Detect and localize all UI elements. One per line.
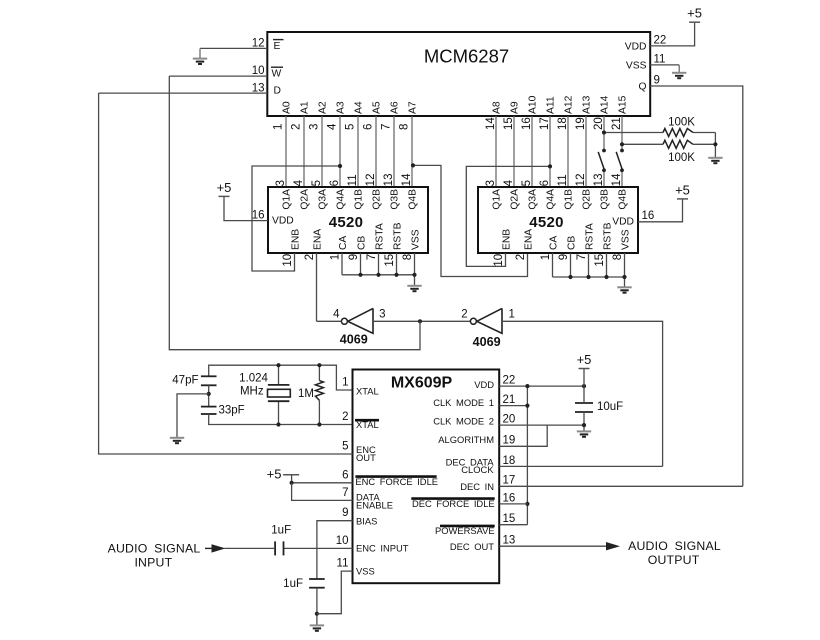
svg-text:Q1A: Q1A [282,189,293,210]
wire A14 bus upper [603,116,605,151]
wire VSS route [317,571,353,614]
svg-text:10: 10 [336,535,349,547]
svg-text:DEC OUT: DEC OUT [450,541,494,552]
svg-text:Q3B: Q3B [390,189,401,210]
svg-text:9: 9 [654,75,660,87]
U3 RSTB wire [606,253,608,277]
IC U1 MCM6287 body [267,32,650,116]
node R2 ground junction [713,142,717,146]
node C1/C2 junction [207,392,211,396]
wire pin13 DEC OUT [499,545,607,547]
svg-text:MHz: MHz [240,385,264,397]
svg-text:11: 11 [654,54,666,66]
svg-text:4: 4 [333,309,340,321]
svg-text:15: 15 [384,254,396,267]
svg-text:10: 10 [252,65,265,77]
IC U2 4520 body [268,187,428,253]
svg-text:CLK MODE 2: CLK MODE 2 [433,416,494,427]
svg-text:CB: CB [566,236,577,250]
svg-text:VDD: VDD [625,42,647,53]
svg-text:CB: CB [356,236,367,250]
svg-text:7: 7 [576,254,588,260]
U2 CB wire [360,253,362,275]
svg-text:Q3A: Q3A [528,189,539,210]
svg-text:VDD: VDD [272,215,294,226]
svg-text:16: 16 [642,210,655,222]
svg-text:3: 3 [275,180,287,186]
wire BIAS [317,521,353,579]
svg-text:Q1B: Q1B [354,189,365,210]
svg-text:VSS: VSS [620,229,631,250]
U5 pin 16 overline [411,497,494,500]
svg-text:100K: 100K [668,117,695,129]
svg-text:MX609P: MX609P [391,374,453,391]
svg-text:CLK MODE 1: CLK MODE 1 [433,397,494,408]
svg-text:Q4B: Q4B [408,189,419,210]
svg-text:11: 11 [347,174,359,186]
svg-text:A12: A12 [564,95,575,114]
svg-text:10uF: 10uF [597,401,623,413]
wire A1 bus [303,116,305,187]
wire pin18 DEC DATA CLOCK [499,465,662,467]
svg-text:Q2B: Q2B [582,189,593,210]
svg-text:5: 5 [344,124,356,130]
wire xtal bottom rail [209,414,353,425]
wire A6 bus [393,116,395,187]
wire A2 bus [321,116,323,187]
svg-text:Q3A: Q3A [318,189,329,210]
U1 pin 12 E wire [200,47,267,49]
svg-text:16: 16 [252,210,265,222]
+5 supply at U2 VDD [217,180,232,197]
crystal Y1 wires [278,365,280,385]
svg-text:13: 13 [503,535,516,547]
wire A8 bus [495,116,497,187]
svg-text:+5: +5 [577,352,592,367]
svg-text:10: 10 [282,254,294,267]
svg-text:21: 21 [611,117,623,130]
U3 ground rail [553,276,625,278]
output arrowhead [606,542,620,550]
ground at cap junction [170,438,184,443]
svg-text:11: 11 [557,174,569,186]
U1 pin 22 VDD wire [650,22,694,46]
node bus pin21 [525,404,529,408]
svg-text:17: 17 [503,475,516,487]
svg-text:11: 11 [337,558,349,570]
svg-text:1uF: 1uF [283,578,303,590]
svg-text:VSS: VSS [356,565,375,576]
svg-text:17: 17 [539,117,551,130]
svg-text:7: 7 [366,254,378,260]
svg-text:A13: A13 [582,95,593,114]
svg-text:A14: A14 [600,95,611,114]
U2 CA wire [341,253,343,275]
wire pin20 [499,424,584,426]
wire R2 to ground bus [693,143,715,145]
U3 rail junction RSTA [586,275,590,279]
wire A4 bus [357,116,359,187]
IC U5 MX609P body [353,370,500,584]
wire U4A output to U2 ENA [317,320,342,322]
ground at U1 VSS [672,65,686,78]
wire ENC INPUT right [284,547,353,549]
wire node to W line [169,76,420,350]
svg-text:VSS: VSS [410,229,421,250]
wire A13 bus [585,116,587,187]
switch S1 contacts [602,149,606,153]
U2 RSTA wire [378,253,380,275]
wire pin16 [499,503,527,505]
U1 pin 10 W wire [169,75,267,77]
U3 rail junction RSTB [604,275,608,279]
svg-text:ENB: ENB [501,229,512,250]
svg-text:7: 7 [342,487,348,499]
svg-text:ENC FORCE IDLE: ENC FORCE IDLE [355,476,438,487]
svg-text:13: 13 [593,174,605,187]
resistor R1 100K [663,129,693,137]
svg-text:1: 1 [330,254,342,260]
svg-text:VDD: VDD [474,379,494,390]
wire pin15 [499,524,527,526]
svg-text:ENC INPUT: ENC INPUT [356,543,409,554]
node Y1 bottom [276,422,280,426]
svg-text:RSTA: RSTA [374,223,385,250]
wire A0 bus [285,116,287,187]
crystal Y1 1.024MHz [268,384,290,386]
svg-text:47pF: 47pF [172,374,198,386]
wire pin6 to pin7 [292,483,353,501]
svg-text:AUDIO SIGNAL: AUDIO SIGNAL [108,542,201,556]
svg-text:18: 18 [557,117,569,130]
svg-text:ENB: ENB [290,229,301,250]
wire R1 to ground bus [693,132,715,134]
svg-text:2: 2 [515,254,527,260]
capacitor C4 1uF bias [309,578,325,580]
svg-text:ENABLE: ENABLE [356,499,393,510]
wire A9 bus [513,116,515,187]
U1 pin 11 VSS wire [650,64,679,66]
switch S2 contacts [620,149,624,153]
resistor R2 100K [663,140,693,148]
wire xtal top rail [209,365,353,390]
svg-text:Q4A: Q4A [546,189,557,210]
wire +5 to pin 6 [291,475,293,483]
svg-text:ENA: ENA [523,229,534,250]
U3 ENB wire [466,166,550,266]
svg-text:POWERSAVE: POWERSAVE [435,525,495,536]
svg-text:A5: A5 [372,101,383,114]
input arrowhead [212,544,226,552]
svg-text:RSTB: RSTB [392,222,403,250]
U2 ENA wire [316,253,318,321]
inverter U4A 4069 body [348,308,373,333]
svg-text:19: 19 [575,117,587,130]
svg-text:INPUT: INPUT [134,556,172,570]
node pin6 +5 junction [290,481,294,485]
svg-text:Q2A: Q2A [300,189,311,210]
svg-text:12: 12 [252,38,265,50]
svg-text:3: 3 [485,180,497,186]
svg-text:+5: +5 [675,182,690,197]
svg-text:4069: 4069 [473,335,501,349]
svg-text:14: 14 [611,173,623,186]
svg-text:A3: A3 [336,101,347,114]
U1 pin 13 D wire [99,92,268,94]
wire A14 bus lower [603,170,605,187]
U2 rail junction VSS [412,273,416,277]
svg-text:1: 1 [272,124,284,130]
wire A15 bus upper [621,116,623,151]
U1 pin E overline [273,39,284,41]
U5 pin 15 overline [440,525,495,528]
svg-text:6: 6 [329,180,341,186]
switch S1 blade [598,152,604,170]
wire resistor ground stem [714,133,716,158]
svg-text:3: 3 [308,124,320,130]
svg-text:4069: 4069 [340,333,368,347]
svg-text:9: 9 [558,254,570,260]
svg-text:Q2A: Q2A [510,189,521,210]
node A11/Q4A to U3 ENB junction [548,164,552,168]
svg-text:D: D [274,86,281,97]
svg-text:8: 8 [402,254,414,260]
svg-text:8: 8 [612,254,624,260]
svg-text:CLOCK: CLOCK [461,464,494,475]
svg-text:Q4A: Q4A [336,189,347,210]
svg-text:A2: A2 [318,101,329,114]
wire A10 bus [531,116,533,187]
svg-text:12: 12 [575,174,587,187]
+5 supply at U5 VDD [577,352,592,386]
svg-text:19: 19 [503,435,516,447]
svg-text:A7: A7 [408,101,419,114]
wire A3 bus [339,116,341,187]
wire A14 to R1 [604,132,663,134]
ground at U1 pin 12 [193,48,207,64]
node between inverters [418,319,422,323]
svg-text:6: 6 [342,469,348,481]
U2 ENB wire [252,166,340,271]
svg-text:10: 10 [493,254,505,267]
svg-text:12: 12 [365,174,377,187]
wire input arrow line [225,547,276,549]
wire VDD pin22 [499,385,584,387]
node VDD/+5 junction [582,384,586,388]
svg-text:W: W [272,69,282,80]
U2 rail junction RSTB [394,273,398,277]
svg-text:Q4B: Q4B [618,189,629,210]
ground at U2 VSS [407,286,421,291]
svg-text:13: 13 [252,82,265,94]
svg-text:14: 14 [485,117,497,130]
svg-text:1M: 1M [298,388,314,400]
ground at pull-down resistors [708,158,722,163]
svg-text:Q1A: Q1A [492,189,503,210]
wire pin17 DEC IN [499,485,743,487]
svg-text:1uF: 1uF [271,525,291,537]
svg-text:2: 2 [342,411,348,423]
+5 supply at U3 VDD [675,182,690,199]
svg-text:A4: A4 [354,101,365,114]
wire A12 bus [567,116,569,187]
capacitor C5 10uF [575,402,593,404]
svg-text:16: 16 [503,492,516,504]
svg-text:RSTA: RSTA [584,223,595,250]
svg-text:+5: +5 [267,467,282,482]
wire C4 to ground [316,588,318,626]
svg-text:AUDIO SIGNAL: AUDIO SIGNAL [628,539,721,553]
wire A5 bus [375,116,377,187]
svg-text:4: 4 [293,179,305,186]
U3 VDD wire [638,199,683,222]
svg-text:4: 4 [503,179,515,186]
svg-text:20: 20 [503,414,516,426]
svg-text:A15: A15 [618,95,629,114]
U5 pin 6 overline [355,475,436,478]
svg-text:OUTPUT: OUTPUT [648,553,700,567]
svg-text:Q: Q [638,82,646,93]
U5 pin 2 XTAL overline [355,419,379,422]
svg-text:A10: A10 [528,95,539,114]
U3 CA wire [552,253,554,277]
U3 rail junction VSS [622,275,626,279]
U1 pin W overline [271,66,283,68]
svg-text:A9: A9 [510,101,521,114]
svg-text:4: 4 [326,123,338,130]
svg-text:15: 15 [503,513,516,525]
svg-text:ALGORITHM: ALGORITHM [438,434,494,445]
U2 rail junction RSTA [376,273,380,277]
U3 CB wire [570,253,572,277]
svg-text:XTAL: XTAL [356,385,379,396]
svg-text:+5: +5 [687,6,702,21]
svg-text:3: 3 [379,309,385,321]
svg-text:20: 20 [593,117,605,130]
svg-text:7: 7 [380,124,392,130]
wire C5 top [583,386,585,403]
svg-text:MCM6287: MCM6287 [424,46,509,67]
svg-text:1.024: 1.024 [239,373,268,385]
U2 rail junction CB [358,273,362,277]
U3 RSTA wire [588,253,590,277]
U2 RSTB wire [396,253,398,275]
IC U3 4520 body [478,187,638,253]
svg-text:A0: A0 [282,101,293,114]
node pin20/C5 junction [582,423,586,427]
wire pin21 [499,405,527,407]
svg-text:A11: A11 [546,96,557,114]
svg-text:VSS: VSS [626,61,647,72]
wire C1 to C2 [208,385,210,406]
resistor R3 1M [315,381,323,401]
svg-text:E: E [274,41,281,52]
svg-text:Q3B: Q3B [600,189,611,210]
svg-text:8: 8 [398,124,410,130]
svg-text:4520: 4520 [329,214,364,231]
wire A7 bus [411,116,413,187]
svg-text:16: 16 [521,117,533,130]
svg-text:15: 15 [594,254,606,267]
wire pin19 to pin20 link [499,425,547,446]
svg-text:33pF: 33pF [219,404,245,416]
svg-text:15: 15 [503,117,515,130]
capacitor C3 1uF input [274,541,276,555]
svg-text:Q2B: Q2B [372,189,383,210]
U3 rail junction CB [568,275,572,279]
node A3/Q4A to ENB junction [338,164,342,168]
wire U4B input from DEC DATA CLOCK [502,321,663,466]
svg-text:22: 22 [503,375,516,387]
node A15/R2 junction [620,142,624,146]
svg-text:6: 6 [362,124,374,130]
svg-text:4520: 4520 [529,214,564,231]
node bus pin22 [525,384,529,388]
wire A15 to R2 [622,143,663,145]
wire A11 bus [549,116,551,187]
node C4/VSS junction [315,612,319,616]
node A14/R1 junction [602,130,606,134]
svg-text:1: 1 [509,309,515,321]
svg-text:2: 2 [290,124,302,130]
ground at C4 [310,625,324,630]
svg-text:ENA: ENA [312,229,323,250]
node A7/Q4B junction [411,163,415,167]
svg-text:21: 21 [503,394,516,406]
svg-text:OUT: OUT [356,452,376,463]
wire C5 bottom [583,412,585,431]
node bus pin16 [525,502,529,506]
U3 VSS wire [624,253,626,287]
U2 VDD wire [224,196,268,220]
svg-text:1: 1 [342,377,348,389]
inverter U4B 4069 body [477,308,502,333]
svg-text:DEC FORCE IDLE: DEC FORCE IDLE [412,498,495,509]
svg-text:5: 5 [342,441,348,453]
node R3 bottom [317,422,321,426]
svg-text:A1: A1 [300,101,311,114]
ground at U3 VSS [617,287,631,292]
node R3 top [317,363,321,367]
svg-text:22: 22 [654,35,667,47]
capacitor C2 33pF [201,406,217,408]
resistor R3 wires [318,365,320,380]
U2 ground rail [342,274,415,276]
svg-text:13: 13 [383,174,395,187]
svg-text:2: 2 [461,309,467,321]
svg-text:A6: A6 [390,101,401,114]
svg-text:9: 9 [342,507,348,519]
svg-text:100K: 100K [668,152,695,164]
svg-text:Q1B: Q1B [564,189,575,210]
svg-text:5: 5 [311,180,323,186]
ground at C5 [577,431,591,436]
svg-text:5: 5 [521,180,533,186]
wire pin 6 [292,482,353,484]
capacitor C1 47pF [201,375,217,377]
U2 VSS wire [414,253,416,286]
node Y1 top [276,363,280,367]
svg-text:CA: CA [338,236,349,250]
svg-text:14: 14 [401,173,413,186]
svg-text:9: 9 [348,254,360,260]
svg-text:A8: A8 [492,101,503,114]
wire ENC OUT to D [99,93,353,454]
svg-text:DEC IN: DEC IN [460,481,494,492]
svg-text:CA: CA [548,236,559,250]
svg-text:VDD: VDD [612,217,634,228]
svg-text:BIAS: BIAS [356,516,377,527]
